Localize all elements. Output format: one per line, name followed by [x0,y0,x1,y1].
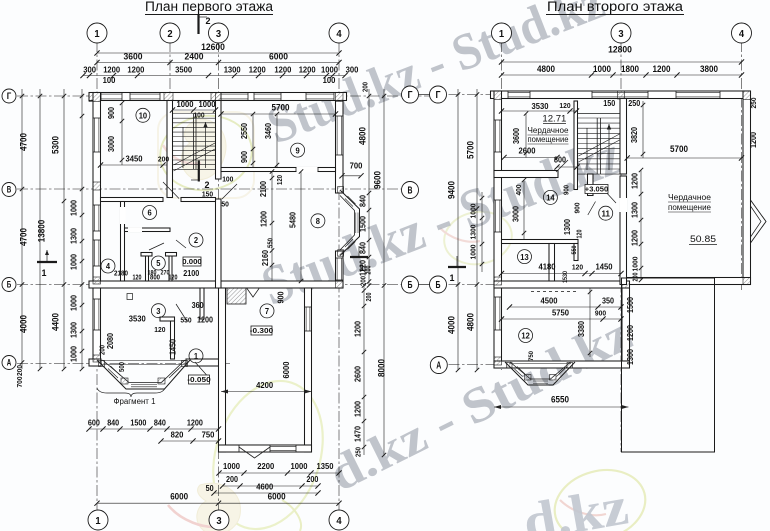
svg-text:900: 900 [107,107,116,119]
svg-text:120: 120 [133,275,142,282]
axis circle GR left [430,86,447,103]
svg-text:В: В [7,185,12,195]
bay window SW inner [103,360,186,383]
axis circle 2 top [160,23,180,43]
watermark logo ghost 2 (bottom left) [168,367,341,531]
dims room 12 area [510,306,622,308]
svg-text:12.71: 12.71 [542,114,566,124]
svg-text:10: 10 [139,111,148,121]
bay window S right plan inner [510,362,571,379]
svg-text:1200: 1200 [260,211,269,227]
stairs flight left plan [173,113,216,115]
wall: stairwell left (axis 2) [167,101,173,198]
svg-text:750: 750 [528,351,535,361]
svg-text:4000: 4000 [19,315,29,333]
axis circle AR left [430,357,447,374]
svg-text:3450: 3450 [126,154,143,164]
dim col right 2 [383,89,385,455]
door swing stairs R [604,190,616,203]
svg-text:1200: 1200 [354,321,363,337]
window right w2 [336,258,343,280]
svg-text:2080: 2080 [106,333,115,349]
svg-text:250: 250 [628,99,640,108]
svg-text:1300: 1300 [626,349,635,365]
svg-text:700: 700 [15,377,24,388]
svg-text:2100: 2100 [259,181,268,197]
svg-text:800: 800 [554,156,566,165]
svg-text:1000: 1000 [321,65,338,75]
svg-text:150: 150 [603,99,615,108]
svg-text:4200: 4200 [256,380,273,390]
svg-text:50.85: 50.85 [690,234,716,245]
WC room 5 wall right [169,256,172,282]
svg-text:1200: 1200 [127,65,144,75]
level box 0.000 [183,257,201,266]
svg-text:200: 200 [366,292,373,301]
svg-text:1000: 1000 [70,254,79,270]
svg-text:1300: 1300 [469,225,478,240]
axis line 2 vertical [169,41,171,100]
svg-text:4: 4 [106,261,110,271]
svg-text:840: 840 [359,195,368,207]
dim 12600 overall [97,52,339,54]
dim row room7 bottom 1 [219,472,339,474]
bay window SW outer [97,360,190,389]
svg-text:1200: 1200 [653,64,671,74]
landing line [578,113,621,115]
axis circle V right1 [402,182,419,199]
svg-text:700: 700 [350,161,363,171]
window left w4 [94,299,101,330]
stair arrow [205,122,207,168]
svg-text:2: 2 [206,16,211,26]
window sill dots [531,291,576,293]
axis circle 4R top [732,23,752,43]
window top w4 [254,93,281,100]
room circle 6 [143,206,157,220]
room circle 14 [543,190,557,204]
wall: right outer lower [336,251,344,288]
svg-text:50: 50 [221,199,229,208]
svg-text:2600: 2600 [354,366,363,382]
svg-text:1200: 1200 [103,65,120,75]
room circle 9 [291,143,305,157]
fragment 1 label and brace [97,388,165,397]
watermark logo ghost 1 (stairs area) [155,110,256,198]
svg-text:200: 200 [361,82,370,92]
svg-text:1450: 1450 [168,339,177,355]
axis circle 1R top [492,23,512,43]
dim line room9 v1 [252,114,254,168]
window left w3 [94,240,101,266]
dim row 820 750 [161,440,219,442]
window top w5 [306,93,334,100]
axis circle B left [2,278,16,292]
dim col right side R plan [640,170,642,280]
svg-text:200: 200 [359,276,368,286]
svg-text:360: 360 [192,301,204,310]
wall: small vertical near room11 [574,244,578,261]
wall: bottom outer (axis A) left stub [89,359,101,366]
svg-text:5700: 5700 [466,141,476,159]
svg-text:11: 11 [602,208,611,218]
window leftR w1 [495,120,502,152]
room 7 door V bottom [239,446,270,452]
wall: bottom outer right plan [494,361,630,368]
svg-text:6000: 6000 [269,52,288,63]
svg-text:1: 1 [499,28,504,40]
svg-text:1000: 1000 [469,204,478,219]
svg-text:300: 300 [346,65,359,75]
svg-text:1500: 1500 [359,216,368,232]
svg-text:2400: 2400 [185,52,204,63]
dim 4600 [214,492,318,494]
dim col left 4 [81,89,83,369]
svg-text:А: А [436,361,441,372]
svg-text:120: 120 [577,229,584,238]
svg-text:2: 2 [167,28,172,40]
svg-text:3000: 3000 [107,136,116,152]
dim col right plan left 1 [457,89,459,370]
axis circle G right1 [402,86,419,103]
axis circle 1 bottom [88,510,108,530]
dims room 10 [121,103,123,165]
svg-text:200: 200 [633,272,640,281]
dim col right plan left 2 [476,89,478,370]
svg-text:3: 3 [216,515,221,527]
svg-text:1300: 1300 [70,322,79,338]
svg-text:1200: 1200 [626,325,635,341]
room 7 window bottom [266,446,296,452]
svg-text:3: 3 [618,28,623,40]
svg-text:600: 600 [88,419,100,428]
svg-text:2100: 2100 [183,269,199,278]
svg-text:750: 750 [202,430,215,440]
room circle 8 [311,214,325,228]
svg-text:200: 200 [226,475,238,484]
svg-text:9600: 9600 [373,171,383,189]
svg-text:500: 500 [117,362,126,372]
door swing room1 [195,362,207,376]
svg-text:5700: 5700 [272,103,290,113]
svg-text:3600: 3600 [124,52,143,63]
svg-text:Фрагмент 1: Фрагмент 1 [114,397,157,406]
bay window S right plan outer [505,362,575,385]
bay opening floor lines [101,360,186,362]
svg-text:1200: 1200 [249,65,266,75]
axis circle 3 bottom [209,510,229,530]
svg-text:6550: 6550 [551,395,569,405]
room circle 7 [260,304,274,318]
bay SW pier hatch 3 [158,378,165,384]
svg-text:900: 900 [564,185,571,195]
svg-text:900: 900 [277,291,286,303]
bay S pier hatch 3 [550,375,557,381]
door swing room2 right [176,240,186,248]
svg-text:550: 550 [571,245,578,254]
door swing room3 [176,304,188,322]
svg-text:1: 1 [94,28,99,40]
svg-text:А: А [7,358,12,368]
dim row room7 bottom 200s [223,485,319,487]
svg-text:3600: 3600 [512,128,521,144]
bay E glass [345,199,353,207]
svg-text:1: 1 [194,351,198,361]
window top w3 [221,93,248,100]
wall: left outer (axis 1) [93,93,101,367]
room circle 3 [151,304,165,318]
wall: top outer right plan [491,91,751,99]
section mark 2 stairs [198,161,200,182]
axis circle B right1 [402,276,419,293]
svg-text:1: 1 [42,268,47,278]
wall: bottom outer (axis A) right stub [186,359,226,366]
svg-text:200: 200 [366,265,373,274]
bay SW window glass [108,369,118,379]
WC toilet [127,294,133,300]
svg-text:120: 120 [154,325,165,334]
svg-text:300: 300 [83,65,96,75]
svg-text:120: 120 [169,275,178,282]
svg-text:840: 840 [359,242,368,254]
svg-text:1500: 1500 [130,419,146,428]
svg-text:4800: 4800 [537,64,555,74]
svg-text:1000: 1000 [70,200,79,216]
svg-text:200: 200 [15,365,24,376]
bay SW pier hatch 4 [182,361,188,367]
axis circle V left [2,183,16,197]
svg-text:900: 900 [595,309,606,318]
svg-text:6000: 6000 [268,492,286,502]
svg-text:3500: 3500 [175,65,192,75]
svg-text:350: 350 [602,297,614,306]
wall: stair right lower [620,176,627,285]
axis circle 1 top [87,23,107,43]
svg-text:120: 120 [559,101,570,110]
svg-text:4000: 4000 [447,316,457,334]
dim 6550 [494,406,629,408]
svg-text:820: 820 [171,430,184,440]
svg-text:4: 4 [336,515,341,527]
svg-text:Чердачное: Чердачное [528,126,569,135]
svg-text:1200: 1200 [187,419,203,428]
door swing room 11 [588,202,596,216]
axis circle 3 top [209,23,229,43]
svg-text:Б: Б [408,280,413,291]
svg-text:5700: 5700 [670,144,688,154]
dim 3820 vertical [642,101,644,158]
svg-text:1000: 1000 [291,461,308,471]
svg-text:+3.050: +3.050 [585,185,608,194]
svg-text:13: 13 [520,252,529,262]
svg-text:4800: 4800 [358,127,368,145]
wall: big room bottom [621,278,751,285]
svg-text:120: 120 [275,175,284,185]
room circle 4 [101,259,115,273]
svg-text:Г: Г [7,91,12,101]
axis circle A left [2,356,16,370]
svg-text:1000: 1000 [631,257,640,272]
axis line 3R vertical [620,41,622,452]
connector G circles [419,94,430,96]
svg-text:5300: 5300 [51,136,61,154]
bay S window glass [515,369,523,377]
stair break line R [579,140,620,162]
pier hatches left plan [89,93,101,102]
svg-text:1000: 1000 [223,461,240,471]
wall: room 6 bottom [125,228,171,232]
svg-text:5480: 5480 [289,212,298,228]
room circle 5 [151,256,165,270]
window top w1 [101,93,122,100]
wall: axis V interior b [181,198,216,202]
svg-text:1000: 1000 [70,295,79,311]
svg-text:1000: 1000 [469,245,478,260]
room circle 11 [599,206,613,220]
section mark 2 top [197,15,199,34]
svg-text:6000: 6000 [170,492,188,502]
axis circle 3R top [611,23,631,43]
svg-text:4: 4 [336,28,341,40]
svg-text:1200: 1200 [631,173,640,189]
window left w2 [94,205,101,231]
dim row fine top [83,75,345,77]
svg-text:800: 800 [150,275,160,282]
wall: room 1 right [200,288,204,319]
dims above stairs [173,109,216,111]
svg-text:250: 250 [749,98,758,109]
axis line G horizontal [17,95,446,97]
svg-text:4800: 4800 [466,313,476,331]
wall: lower right vertical [622,288,630,361]
bay triangle right [751,200,767,243]
axis line 4R vertical [741,41,743,290]
svg-text:13800: 13800 [37,220,47,243]
svg-text:5: 5 [156,258,160,268]
svg-text:В: В [408,186,413,197]
window topR w2 [592,92,648,99]
svg-text:1000: 1000 [177,99,194,109]
svg-text:200: 200 [98,345,107,355]
dim row 4180 120 1450 [502,273,622,275]
svg-text:Б: Б [7,280,12,290]
svg-text:100: 100 [222,175,233,184]
dim row2 right plan [502,74,742,76]
bay E pier hatch bottom [338,250,344,256]
bay S pier hatch 4 [567,363,573,369]
dim 5700 big room [627,157,741,159]
svg-text:2600: 2600 [519,146,536,156]
svg-text:3460: 3460 [264,123,273,139]
wall: stair right (axis3) [620,99,627,175]
level box -0.050 [189,375,210,384]
svg-text:9: 9 [296,145,300,155]
svg-text:2: 2 [205,180,210,190]
svg-text:5750: 5750 [552,308,569,318]
wall: interior horizontal 5700 level [494,171,558,178]
svg-text:1200: 1200 [274,65,291,75]
bay E pier hatch top [338,187,344,193]
svg-text:1200: 1200 [299,65,316,75]
dim line room9 v2 [276,114,278,168]
svg-text:550: 550 [180,316,191,325]
svg-text:8: 8 [316,216,320,226]
svg-text:1: 1 [450,273,455,283]
svg-text:12800: 12800 [608,45,632,56]
wall: left outer right plan [494,91,502,368]
svg-text:840: 840 [107,419,119,428]
svg-text:4400: 4400 [51,313,61,331]
wall: stair left right plan [574,101,578,190]
svg-text:8000: 8000 [377,359,387,377]
wall: stub below stairs [588,174,594,196]
window right w1 [336,116,343,155]
section mark 1 right plan [448,266,466,268]
svg-text:Б: Б [436,280,441,291]
section mark 1 left [37,261,57,263]
WC room 5 flange right [166,253,177,257]
svg-text:3000: 3000 [512,206,521,222]
svg-text:9400: 9400 [447,181,457,199]
dims 3600 2600 800 [525,114,527,158]
svg-text:3800: 3800 [700,64,718,74]
wall: right outer right plan [743,91,751,285]
door swing room2 top [163,182,179,199]
svg-text:7: 7 [265,306,269,316]
svg-text:2200: 2200 [257,461,274,471]
axis line A horizontal [17,363,230,365]
svg-text:4: 4 [739,28,744,40]
svg-text:4500: 4500 [541,296,558,306]
room 7 wall right [305,288,312,452]
window topR w1 [508,92,530,99]
svg-text:помещение: помещение [528,135,569,144]
room 7 wall left [219,288,226,452]
room circle 13 [518,250,532,264]
svg-text:1450: 1450 [596,262,613,272]
svg-text:6000: 6000 [281,361,291,378]
wall: axis V interior [101,198,164,202]
room circle 2 [189,233,203,247]
window leftR w2 [495,200,502,232]
wall: stairwell right (axis 3) [216,101,222,180]
room 7 stove rect [227,288,246,304]
wall: top outer (axis G) [89,93,347,101]
svg-text:900: 900 [573,203,582,214]
svg-text:3530: 3530 [129,314,146,324]
dim row 6000 6000 [97,502,339,504]
dim col left 1 [21,89,23,369]
window left w1 [94,118,101,152]
window topR w3 [676,92,720,99]
door swing room2 left [149,243,164,250]
svg-text:1300: 1300 [563,219,572,235]
svg-text:900: 900 [240,151,249,163]
room 7 wall bottom [219,445,312,452]
dim row 3600 2400 6000 [97,62,339,64]
dims room 9 [221,113,336,115]
svg-text:840: 840 [154,419,166,428]
axis circle 4 top [329,23,349,43]
axis line 3 vertical [218,41,220,512]
door swing near stairs [222,184,237,199]
svg-text:1300: 1300 [70,228,79,244]
axis circle G left [2,89,16,103]
dims room8 left col [271,172,273,282]
svg-text:3380: 3380 [577,321,586,337]
svg-text:1200: 1200 [197,316,213,325]
axis circle BR left [430,276,447,293]
